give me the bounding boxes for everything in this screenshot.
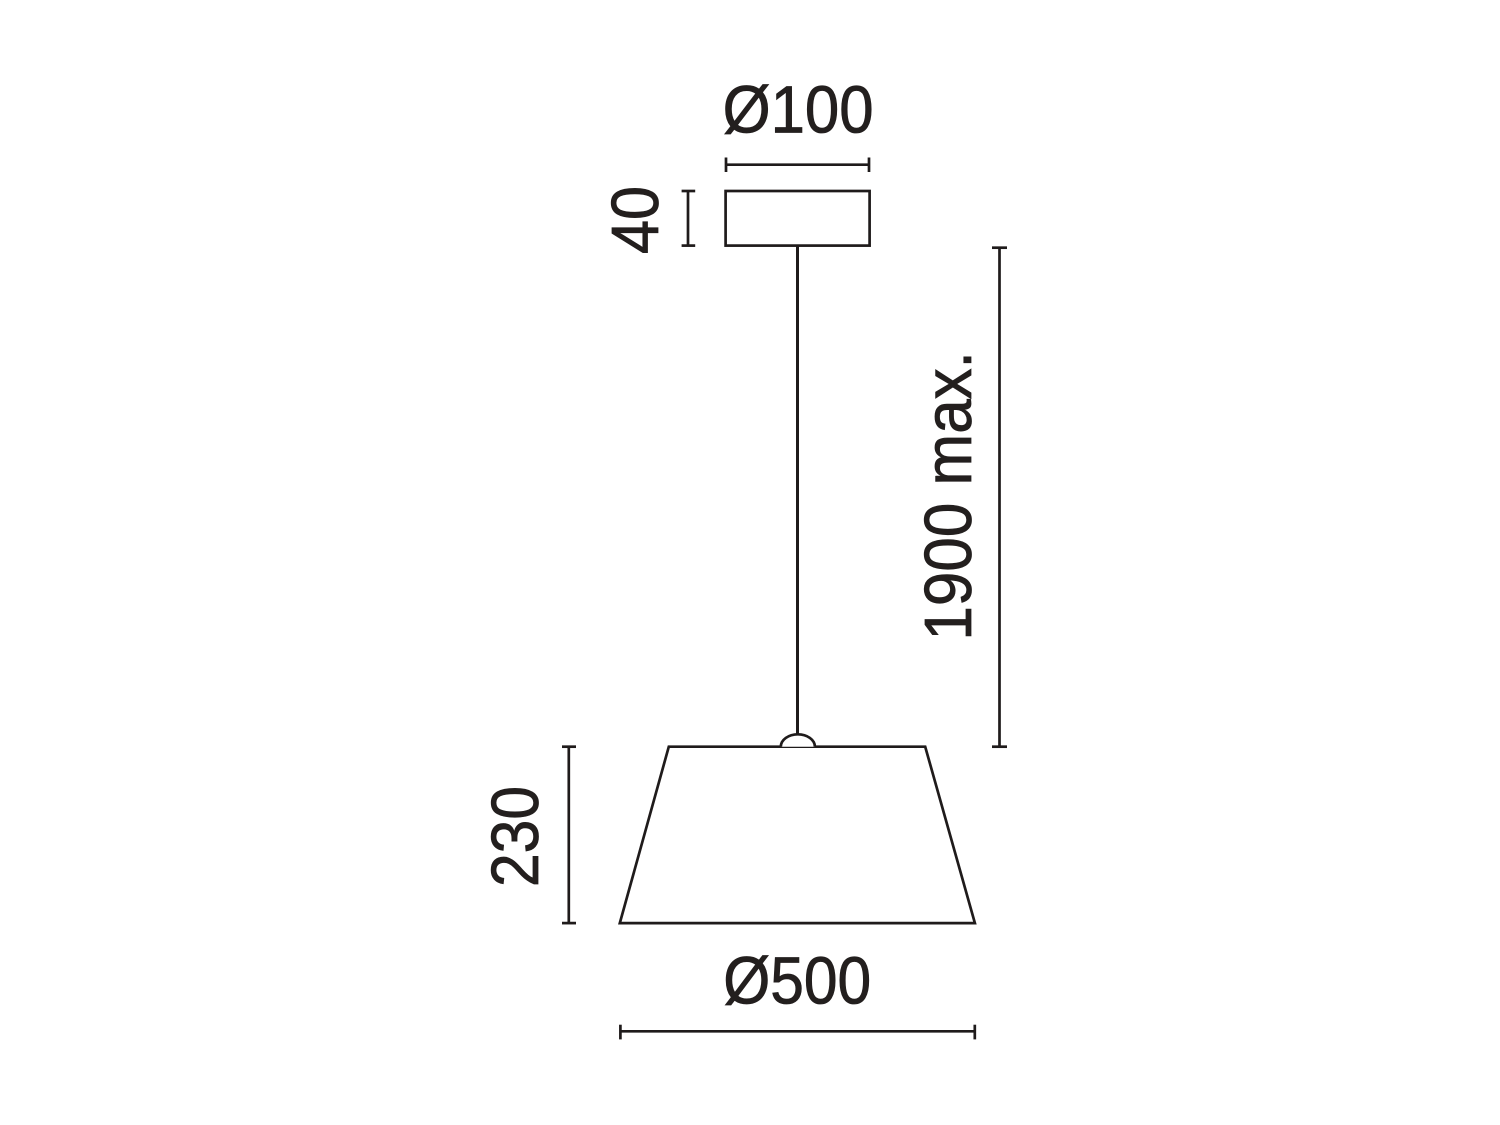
svg-text:Ø500: Ø500 bbox=[723, 944, 871, 1019]
svg-text:Ø100: Ø100 bbox=[723, 73, 874, 148]
svg-text:230: 230 bbox=[478, 786, 553, 887]
svg-text:1900 max.: 1900 max. bbox=[911, 351, 986, 641]
svg-text:40: 40 bbox=[598, 186, 673, 254]
